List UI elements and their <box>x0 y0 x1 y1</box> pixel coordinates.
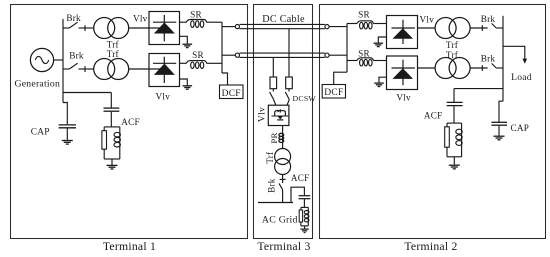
smoothing reactor SR lower t2 <box>347 58 387 66</box>
svg-text:DCF: DCF <box>324 88 343 98</box>
ground of valve U2 <box>180 79 193 89</box>
svg-text:Brk: Brk <box>66 13 81 23</box>
frame terminal 1 box <box>11 5 248 239</box>
AC filter ACF terminal 3 capacitor <box>299 196 311 208</box>
wire load bus to ACF t2 <box>454 88 503 90</box>
breaker Brk upper (stub, blade, cross tick) <box>63 22 94 31</box>
DC filter DCF box <box>220 85 244 99</box>
svg-text:Vlv: Vlv <box>396 92 411 102</box>
ground of CAP <box>62 141 73 145</box>
svg-text:Vlv: Vlv <box>257 107 268 122</box>
frame terminal 3 box <box>254 5 313 239</box>
svg-text:DCF: DCF <box>222 89 241 99</box>
transformer Trf lower <box>94 59 129 80</box>
AC filter ACF t2 capacitor <box>447 89 463 124</box>
DC cable lower (double line) <box>240 53 325 57</box>
generator G (AC source) <box>30 48 53 71</box>
AC filter ACF terminal 3 R-L parallel <box>299 207 309 228</box>
AC filter ACF t2 R-L parallel <box>445 123 462 165</box>
AC filter ACF capacitor <box>104 93 120 127</box>
jog load bus to CAP t2 <box>499 101 503 122</box>
valve U1 box (thyristor) <box>149 12 180 45</box>
DC filter DCF box t2 <box>322 85 345 99</box>
svg-text:Vlv: Vlv <box>420 14 435 24</box>
connector node upper left <box>235 25 239 29</box>
tap wire from upper cable <box>288 29 290 77</box>
svg-text:Brk: Brk <box>481 14 496 24</box>
connector node upper right <box>325 25 329 29</box>
AC filter ACF R-L parallel branch <box>102 127 121 165</box>
ground of valve U4 <box>374 37 387 47</box>
smoothing reactor SR upper <box>186 20 207 28</box>
wire valve output to SR lower <box>180 62 187 64</box>
svg-text:Trf: Trf <box>446 50 459 60</box>
DC cable upper (double line) <box>240 24 325 28</box>
wire connector to DC bus upper <box>329 26 347 28</box>
svg-text:AC Grid: AC Grid <box>262 214 298 225</box>
transformer Trf upper <box>94 18 129 39</box>
ground of ACF t2 <box>449 165 460 169</box>
breaker Brk terminal 3 <box>279 175 286 203</box>
svg-text:Brk: Brk <box>481 53 496 63</box>
DC switch resistor left <box>270 77 277 89</box>
IGBT with diode symbol inside valve U3 <box>272 109 289 120</box>
capacitor CAP t2 <box>491 122 507 135</box>
svg-text:DCSW: DCSW <box>293 94 317 103</box>
phase reactor PR <box>279 133 284 142</box>
svg-text:DC Cable: DC Cable <box>262 14 305 25</box>
svg-text:Brk: Brk <box>267 178 277 193</box>
jog DC bus to DCF box t2 <box>334 72 347 84</box>
svg-text:Trf: Trf <box>107 40 120 50</box>
transformer Trf upper t2 <box>435 18 470 39</box>
capacitor CAP <box>59 125 76 140</box>
stub to cable connector upper <box>222 26 235 28</box>
svg-text:SR: SR <box>358 9 370 19</box>
connector node lower right <box>325 53 329 57</box>
wire generator to AC bus <box>53 59 63 61</box>
svg-text:SR: SR <box>192 50 204 60</box>
ground of valve U1 <box>180 36 193 47</box>
ground of valve U5 <box>374 77 386 86</box>
wire valve to Trf lower t2 <box>418 67 436 69</box>
valve U3 box (VSC) <box>268 105 289 125</box>
breaker Brk lower t2 <box>470 63 503 71</box>
breaker Brk upper t2 <box>470 23 503 31</box>
ground of CAP t2 <box>494 136 505 140</box>
smoothing reactor SR upper t2 <box>347 21 387 29</box>
wire AC bus to ACF <box>63 92 111 94</box>
svg-text:Terminal 3: Terminal 3 <box>257 240 310 253</box>
wire valve output to SR upper <box>180 21 187 23</box>
smoothing reactor SR lower <box>186 61 207 69</box>
wire Trf to valve upper <box>129 27 165 29</box>
svg-text:Trf: Trf <box>446 40 459 50</box>
svg-text:Generation: Generation <box>15 79 61 90</box>
valve U2 box (thyristor) <box>149 54 180 87</box>
svg-text:SR: SR <box>190 10 202 20</box>
svg-text:Vlv: Vlv <box>133 14 148 24</box>
svg-text:Load: Load <box>511 72 532 83</box>
breaker Brk lower <box>63 63 94 72</box>
svg-text:Vlv: Vlv <box>156 92 171 102</box>
AC filter ACF terminal 3 riser <box>291 187 304 202</box>
svg-text:ACF: ACF <box>424 111 443 121</box>
transformer Trf lower t2 <box>435 58 470 79</box>
wire SR to DC bus lower <box>206 62 222 64</box>
svg-text:ACF: ACF <box>291 173 310 183</box>
ground of ACF terminal 3 <box>300 229 308 232</box>
DC switch DCSW blade right <box>285 89 289 106</box>
AC grid bus terminal 3 <box>258 202 293 204</box>
wire connector to DC bus lower <box>329 54 347 56</box>
svg-text:Trf: Trf <box>107 49 120 59</box>
jog AC bus to CAP <box>63 103 67 125</box>
ground of ACF <box>107 165 118 169</box>
valve U5 box (thyristor) t2 lower <box>387 56 418 90</box>
load bus terminal 2 <box>502 16 504 101</box>
valve U4 box (thyristor) t2 upper <box>387 16 418 49</box>
svg-text:CAP: CAP <box>511 123 530 133</box>
transformer Trf terminal 3 <box>275 149 291 175</box>
svg-text:CAP: CAP <box>31 127 50 137</box>
wire SR to DC bus upper <box>206 21 222 23</box>
AC bus terminal 1 <box>62 19 64 103</box>
stub to cable connector lower <box>222 54 235 56</box>
svg-text:Brk: Brk <box>69 51 84 61</box>
svg-text:Terminal 2: Terminal 2 <box>404 240 457 253</box>
DC bus terminal 1 <box>221 22 223 73</box>
wire Trf to valve lower <box>129 68 165 70</box>
svg-text:ACF: ACF <box>121 117 140 127</box>
svg-text:Terminal 1: Terminal 1 <box>103 240 156 253</box>
wire valve to Trf upper t2 <box>418 27 436 29</box>
connector node lower left <box>235 53 239 57</box>
svg-text:Trf: Trf <box>265 152 275 164</box>
DC switch DCSW blade left <box>270 89 276 106</box>
DC switch resistor right <box>286 77 293 89</box>
svg-text:PR: PR <box>269 132 279 143</box>
DC bus terminal 2 <box>346 24 348 73</box>
svg-text:SR: SR <box>358 49 370 59</box>
jog DC bus to DCF box <box>222 73 228 85</box>
wire valve U3 to phase reactor <box>282 126 284 149</box>
frame terminal 2 box <box>320 5 546 239</box>
load branch with arrow <box>503 46 527 64</box>
tap wire from lower cable <box>272 57 274 77</box>
